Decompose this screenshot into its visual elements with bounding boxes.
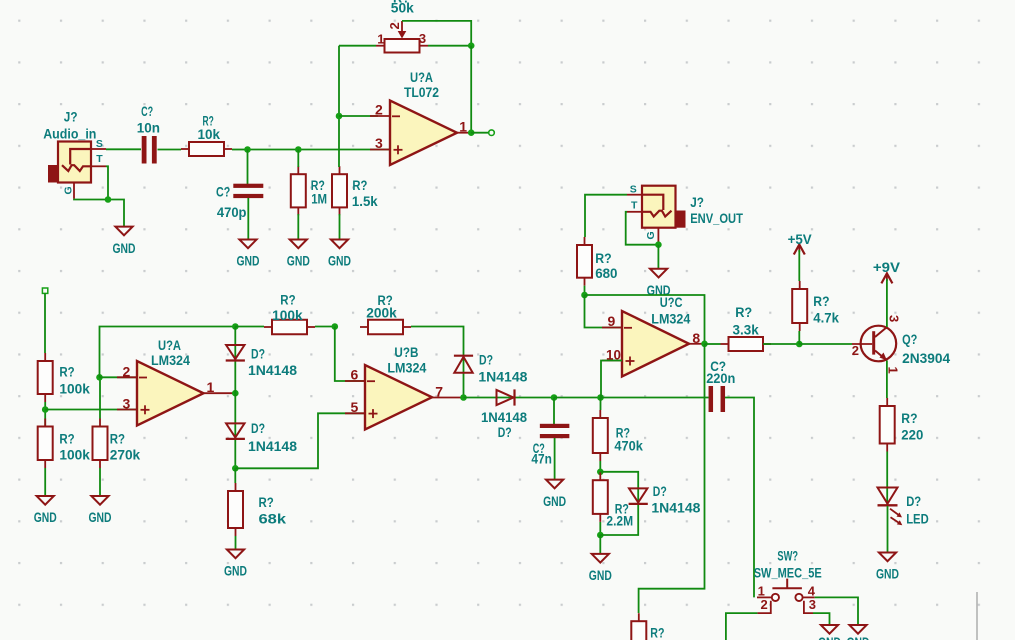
svg-text:LM324: LM324 [387,361,426,377]
resistor R8 100k [264,320,315,335]
wire node A down to R2 [297,150,299,168]
junction U1A output [468,129,475,136]
svg-text:2.2M: 2.2M [606,514,633,530]
LED D6 [878,488,903,526]
junction node H [597,532,604,539]
wire C2 to gnd [247,198,249,240]
label R? of R2 [311,178,325,194]
svg-text:1N4148: 1N4148 [248,363,297,379]
label SW? of SW1 [777,549,798,565]
pin 1 of RV1 [377,32,384,47]
svg-text:2: 2 [123,363,131,379]
resistor R6 270k [93,419,108,469]
pin 1 of U2A [207,379,215,395]
ground under R5 [34,496,57,526]
svg-text:680: 680 [595,266,617,282]
wire node G to D5 [600,472,638,535]
frame edge [976,592,978,640]
pin 2 of SW1 [761,597,768,612]
svg-text:ENV_OUT: ENV_OUT [690,211,743,227]
wire node E to node F [554,397,601,399]
pin name G [62,186,74,194]
svg-text:D?: D? [498,425,512,441]
capacitor C2 470p [233,184,263,198]
pin 7 of U2B [435,383,443,399]
junction U2C output [701,341,708,348]
pin 2 of RV1 [387,22,402,29]
wire SW1 pin2 out [726,613,758,640]
svg-text:U?C: U?C [660,295,683,311]
svg-text:6: 6 [351,367,359,383]
label R? of R11 [615,502,629,518]
label 680 of R12 [595,266,617,282]
wire R9 to D3 [411,327,464,398]
label R? of R4 [59,365,74,381]
wire node D to U2B pin6 [335,327,365,382]
resistor R3 1.5k [332,166,347,215]
svg-text:100k: 100k [59,381,90,397]
label D? of D6 [906,494,921,510]
wire pot pin1 feedback vertical [338,46,340,167]
power +5V symbol [794,245,805,255]
label SW_MEC_5E [754,566,822,582]
transistor Q1 2N3904 [852,326,896,362]
junction node G [597,469,604,476]
svg-text:3: 3 [123,396,131,412]
svg-text:1N4148: 1N4148 [651,501,700,517]
ground under J2 [647,269,671,299]
svg-text:9: 9 [608,313,616,329]
svg-text:10k: 10k [198,127,221,143]
label U?A of U2 [158,338,181,354]
resistor R14 4.7k [792,281,807,331]
svg-text:Audio_in: Audio_in [43,127,96,143]
wire feedback node to D1 [234,327,236,394]
wire node H to gnd [599,535,601,554]
svg-text:GND: GND [876,567,899,583]
pin 1 of U1A [459,119,467,135]
svg-text:200k: 200k [366,306,397,322]
wire node A to opamp pin3 [248,149,391,151]
pin name T [96,153,103,165]
pin 1 of Q1 [886,367,901,374]
wire pot wiper to pin3 net [402,21,471,46]
label 50k [391,1,414,17]
label 100k of R8 [272,308,303,324]
label 270k of R6 [110,448,141,464]
label LM324 of U2A [151,353,190,369]
svg-text:U?A: U?A [158,338,181,354]
svg-text:3: 3 [375,135,383,151]
pin 3 of SW1 [809,597,816,612]
unconnected end marker U1A out [489,130,495,136]
junction jack ground [105,196,112,203]
svg-text:S: S [630,183,637,195]
pin 3 of U2A [123,396,131,412]
label 10k [198,127,221,143]
capacitor C5 220n [709,386,726,412]
wire U1A output stub [471,132,489,134]
wire C4 to gnd [554,438,556,480]
svg-text:R?: R? [735,305,752,321]
wire node F to R10 [600,398,602,411]
svg-text:1.5k: 1.5k [352,194,378,210]
svg-text:SW_MEC_5E: SW_MEC_5E [754,566,822,582]
wire R13 to node J [763,343,799,345]
junction node D [332,323,339,330]
diode D3 1N4148 [454,356,473,373]
label 1.5k [352,194,378,210]
svg-text:C?: C? [216,185,230,201]
svg-text:3: 3 [887,315,902,322]
wire U2C out net down [639,344,705,613]
label U?A of U1 [410,70,433,86]
wire node C to U2B pin5 [235,413,365,468]
svg-text:GND: GND [89,510,112,526]
svg-text:GND: GND [287,254,310,270]
wire R6 to gnd [99,468,101,496]
svg-text:D?: D? [251,347,265,363]
wire Q1 emitter to R15 [886,361,888,399]
pin name T of J2 [631,200,638,212]
svg-text:1N4148: 1N4148 [248,439,297,455]
svg-text:LM324: LM324 [151,353,190,369]
wire out to R13 [705,343,721,345]
svg-text:T: T [631,200,638,212]
svg-text:2: 2 [375,102,383,118]
label R? of R16 [650,626,664,640]
wire U2A output to D2 [234,393,236,468]
svg-text:R?: R? [59,432,74,448]
label D? of D5 [653,484,667,500]
wire C5 to SW pin1 [725,398,754,598]
svg-text:1N4148: 1N4148 [478,370,527,386]
wire top stub to R4 [44,293,46,353]
svg-text:50k: 50k [391,1,414,17]
svg-text:2N3904: 2N3904 [902,351,950,367]
svg-text:GND: GND [328,254,351,270]
svg-text:R?: R? [352,178,367,194]
label LM324 of U2C [651,312,690,328]
label R? of R12 [595,251,611,267]
ground under R6 [89,496,112,526]
junction feedback top D1 [232,323,239,330]
svg-text:LED: LED [906,512,929,528]
label J? of J2 [690,195,704,211]
diode D5 1N4148 [629,488,648,504]
pin 3 of RV1 [419,31,426,46]
wire R15 to LED [886,452,888,506]
svg-text:270k: 270k [110,448,141,464]
svg-text:100k: 100k [59,448,90,464]
resistor R7 68k [228,483,243,536]
wire J2 T to gnd node [626,212,659,245]
wire SW1 pin3 to gnd [813,613,830,625]
svg-text:R?: R? [813,294,829,310]
svg-text:470k: 470k [614,438,643,454]
junction node A C2 [244,146,251,153]
wire R6 up to pin2 node [99,377,101,418]
pin 3 of U1A [375,135,383,151]
wire R10 to node G [599,461,601,472]
op-amp U2C LM324 [602,311,689,377]
svg-text:4.7k: 4.7k [813,310,839,326]
label C? of C5 [710,359,726,375]
label 47n of C4 [531,451,552,467]
junction node E C4 [551,394,558,401]
junction U2B output [460,394,467,401]
svg-text:3: 3 [809,597,816,612]
label Audio_in value [43,127,96,143]
pin name S [96,138,103,150]
ground under R7 [224,550,247,580]
svg-text:S: S [96,138,103,150]
svg-text:U?B: U?B [394,345,418,361]
pin 2 of U2A [123,363,131,379]
junction node F [597,394,604,401]
pin 2 of U1A [375,102,383,118]
svg-text:R?: R? [650,626,664,640]
resistor R9 200k [360,320,411,335]
junction node C [232,465,239,472]
op-amp U2A LM324 [117,361,204,426]
svg-text:U?A: U?A [410,70,433,86]
wire output net vertical [470,46,472,133]
wire R14 to node J [798,331,800,344]
unconnected end marker top of R4 [42,288,47,293]
wire C1 to R1 [158,149,182,151]
label D? of D1 [251,347,265,363]
svg-text:2: 2 [761,597,768,612]
label 10n [137,121,160,137]
label R? of R5 [59,432,74,448]
ground under R11 [589,554,612,584]
label ENV_OUT [690,211,743,227]
svg-text:D?: D? [479,353,493,369]
label 2N3904 [902,351,950,367]
svg-text:3: 3 [419,31,426,46]
wire node I to U2C pin9 [585,295,623,328]
junction node J [796,341,803,348]
diode D4 1N4148 [497,389,515,405]
svg-text:R?: R? [59,365,74,381]
switch SW1 SW_MEC_5E [757,579,815,614]
ground under R2 [287,240,310,270]
label R? of R1 [203,114,214,130]
svg-text:GND: GND [224,564,247,580]
wire pot pin3 to output net [428,45,471,47]
wire jack G to gnd [74,199,124,227]
resistor R5 100k [38,419,53,469]
svg-text:D?: D? [251,421,265,437]
label R? of R7 [259,495,274,511]
label 1M [311,192,327,208]
label R? of R6 [110,432,125,448]
resistor R4 100k [38,353,53,402]
op-amp U2B LM324 [345,365,432,430]
label R? of RV1 clipped [393,0,410,7]
resistor R16 bottom [631,613,646,640]
pin name G of J2 [645,231,657,239]
label J? reference [64,109,78,125]
svg-text:220n: 220n [706,371,735,387]
resistor R10 470k [593,410,608,461]
junction U2A output [232,390,239,397]
wire R4 to node B [44,402,46,427]
resistor R11 2.2M [593,472,608,522]
pin 7 stub of U2B [432,397,464,399]
label LED of D6 [906,512,929,528]
pin 1 of SW1 [758,583,765,598]
label U?C of U2 [660,295,683,311]
potentiometer RV1 50k [376,21,428,53]
ground under C2 [237,240,260,270]
resistor R12 680 [577,237,592,286]
wire J2 G to gnd [657,245,659,269]
label C? of C4 [533,441,545,457]
junction node A R2 [295,146,302,153]
junction node I [581,292,588,299]
wire pot pin1 to feedback [339,45,376,47]
label 470p [217,205,247,221]
svg-text:2: 2 [387,22,402,29]
svg-text:Q?: Q? [902,332,917,348]
pin 8 of U2C [692,330,700,346]
label C? of C2 [216,185,230,201]
svg-text:R?: R? [901,411,917,427]
junction J2 ground [655,241,662,248]
resistor R15 220 [880,398,895,452]
wire SW1 pin4 to gnd [815,597,858,625]
label R? of R3 [352,178,367,194]
wire +9V to Q1 collector [886,279,888,327]
label +9V [873,260,901,276]
svg-text:R?: R? [259,495,274,511]
wire to TL072 pin2 [339,115,378,117]
svg-text:C?: C? [141,104,153,120]
wire node B to U2A pin3 [45,409,137,411]
label 3.3k of R13 [733,323,759,339]
label 100k of R4 [59,381,90,397]
pin 1 stub of U2A [204,392,236,394]
svg-text:5: 5 [351,399,359,415]
label 1N4148 of D1 [248,363,297,379]
wire R1 to node A [232,149,248,151]
wire pin2 node to U2A [100,376,138,378]
label 220 of R15 [901,428,923,444]
wire U2C pin10 to node F [601,361,622,398]
svg-text:D?: D? [653,484,667,500]
wire node I feedback to output [585,295,705,344]
capacitor C1 10n [142,136,157,164]
label R? of R15 [901,411,917,427]
wire node J to Q1 base [799,343,852,345]
pin 10 of U2C [606,346,621,362]
label LM324 of U2B [387,361,426,377]
svg-text:LM324: LM324 [651,312,690,328]
diode D2 1N4148 [226,423,245,439]
svg-text:R?: R? [110,432,125,448]
wire R8 to node D [315,326,335,328]
svg-text:R?: R? [595,251,611,267]
pin 1 stub of U1A [457,132,471,134]
ground under R3 [328,240,351,270]
svg-text:47n: 47n [531,451,552,467]
label 100k of R5 [59,448,90,464]
svg-text:GND: GND [847,635,870,640]
label 470k of R10 [614,438,643,454]
pin 9 of U2C [608,313,616,329]
svg-text:J?: J? [690,195,704,211]
svg-text:GND: GND [818,635,841,640]
svg-text:100k: 100k [272,308,303,324]
label 2.2M of R11 [606,514,633,530]
junction U2A pin2 node [96,374,103,381]
wire node C to R7 [234,468,236,483]
pin 6 of U2B [351,367,359,383]
wire R2 to gnd [297,214,299,240]
label 1N4148 of D3 [478,370,527,386]
pin 3 of Q1 [887,315,902,322]
wire feedback D1 to R8 [235,326,264,328]
svg-text:3.3k: 3.3k [733,323,759,339]
label 1N4148 of D4 [481,410,527,426]
wire R12 to node I [584,286,586,295]
resistor R2 1M [291,166,306,215]
wire R7 to gnd [235,536,237,550]
svg-text:+5V: +5V [788,232,813,248]
capacitor C4 47n [540,424,570,438]
label R? of R9 [378,293,393,309]
ground under SW1 pin4 [847,625,870,640]
svg-text:220: 220 [901,428,923,444]
pin 8 stub of U2C [689,343,705,345]
diode D1 1N4148 [226,345,245,361]
svg-text:2: 2 [852,343,859,358]
label 68k of R7 [259,512,287,528]
ground under SW1 pin3 [818,625,841,640]
pin 4 of SW1 [808,583,816,598]
svg-text:+9V: +9V [873,260,901,276]
pin 2 of Q1 [852,343,859,358]
power +9V symbol [881,273,892,283]
label D? of D2 [251,421,265,437]
label D? of D4 [498,425,512,441]
label C? of C1 [141,104,153,120]
svg-text:SW?: SW? [777,549,798,565]
svg-text:1M: 1M [311,192,327,208]
wire jack S to C1 [106,148,141,150]
ground under jack [113,227,136,257]
svg-text:470p: 470p [217,205,247,221]
label R? of R13 [735,305,752,321]
pin 5 of U2B [351,399,359,415]
svg-text:T: T [96,153,103,165]
wire jack T down [106,166,108,199]
svg-text:D?: D? [906,494,921,510]
junction node B [42,406,49,413]
ground under LED [876,553,899,583]
label D? of D3 [479,353,493,369]
svg-text:68k: 68k [259,512,287,528]
svg-text:GND: GND [237,254,260,270]
label Q? of Q1 [902,332,917,348]
wire R3 to gnd [339,214,341,240]
pin name S of J2 [630,183,637,195]
wire U2B out to D4 [464,397,555,399]
resistor R13 3.3k [721,337,772,351]
label 4.7k of R14 [813,310,839,326]
